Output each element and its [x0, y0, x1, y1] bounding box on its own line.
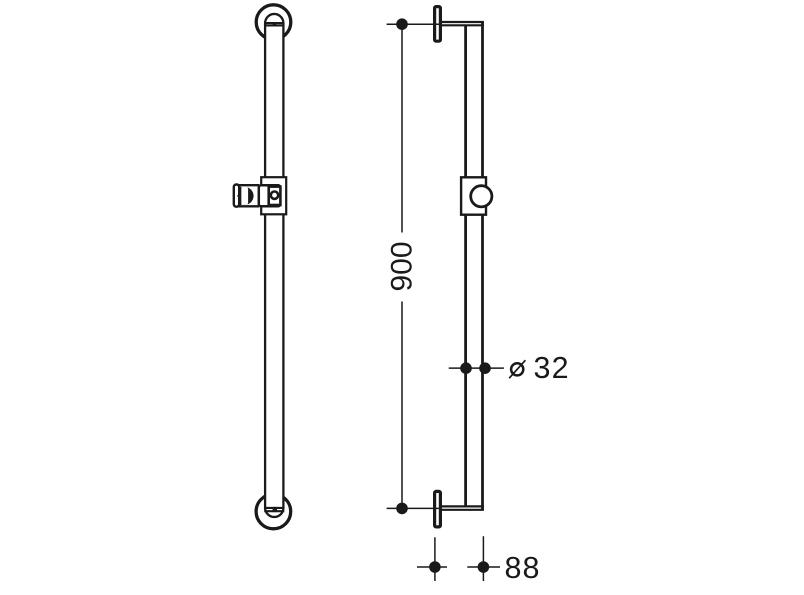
bottom flange circle (front view) — [256, 494, 291, 529]
dimension 900: top extension line — [387, 23, 442, 25]
tube bottom cap lines — [264, 508, 284, 511]
side view: rail left line — [464, 25, 467, 506]
dimension 88: right stub — [467, 566, 500, 568]
holder slot — [241, 187, 248, 205]
dimension 88: right extension line — [482, 536, 484, 581]
side view: bottom arm lines — [442, 506, 484, 509]
slider plate (front view) — [261, 177, 286, 214]
dimension ø32: label — [509, 360, 525, 378]
dimension 88: left stub — [417, 566, 447, 568]
side view: top arm lines — [442, 22, 484, 25]
holder sphere (front view) — [236, 187, 254, 205]
dimension 900: vertical line upper — [401, 24, 403, 232]
svg-text:32: 32 — [534, 351, 570, 385]
rail tube (front view) — [265, 14, 283, 517]
holder rim — [234, 185, 239, 207]
holder square — [269, 187, 281, 205]
dimension 88: right dot — [478, 561, 490, 573]
dimension 88: left dot — [429, 561, 441, 573]
dimension 900: vertical line lower — [401, 302, 403, 509]
side view: slider rect — [461, 177, 486, 214]
holder connector lines — [239, 185, 260, 206]
dimension 88: left extension line — [434, 537, 436, 581]
holder notch — [237, 194, 239, 198]
side view: knob circle — [471, 186, 492, 207]
side view: bottom wall plate — [435, 491, 441, 527]
holder block — [259, 185, 280, 206]
top flange circle (front view) — [256, 5, 291, 40]
svg-text:900: 900 — [386, 241, 419, 291]
dimension ø32: left dot — [460, 362, 472, 374]
dimension ø32: line — [449, 367, 504, 369]
dimension 900: top dot — [396, 18, 408, 30]
side view: rail right line — [481, 22, 484, 510]
svg-text:88: 88 — [505, 551, 541, 585]
dimension 900: bottom dot — [396, 503, 408, 515]
side view: top wall plate — [435, 7, 441, 42]
holder button circle — [271, 192, 278, 199]
dimension ø32: right dot — [479, 362, 491, 374]
tube top cap lines — [264, 23, 284, 25]
holder left band — [240, 187, 242, 205]
dimension 900: bottom extension line — [387, 507, 442, 509]
